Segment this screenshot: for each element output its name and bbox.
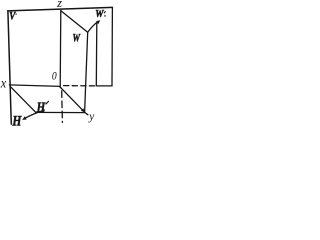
y-axis: [60, 87, 84, 112]
wire dashed unfolded y-axis toward W: [64, 85, 97, 87]
wire unfolded W left edge: [95, 23, 98, 86]
wire H rotation arrow shaft: [25, 110, 44, 118]
svg-text:x: x: [0, 75, 6, 90]
svg-text:V: V: [9, 9, 16, 23]
wire top edge (V plane top + unfolded W top): [8, 7, 113, 10]
wire W rotation arrow shaft: [88, 21, 98, 31]
H rotation arrowhead: [22, 116, 26, 120]
W rotation arrowhead: [96, 20, 100, 24]
dot after W': [104, 15, 106, 17]
svg-text:H: H: [12, 113, 23, 129]
y-axis arrowhead: [81, 108, 85, 112]
svg-text:0: 0: [52, 69, 57, 83]
svg-text:z: z: [56, 0, 62, 10]
wire y-axis overshoot tick: [85, 113, 88, 115]
prime mark of W': [104, 11, 106, 13]
wire H plane bottom edge: [36, 111, 85, 113]
wire unfolded W bottom edge: [97, 85, 113, 87]
wire left edge of V and unfolded H plane: [8, 11, 11, 124]
wire W plane right edge: [85, 32, 88, 112]
x-axis: [9, 85, 60, 87]
ink speck right of V: [15, 13, 16, 14]
svg-text:y: y: [88, 111, 95, 123]
wire H plane left oblique edge: [10, 86, 36, 112]
svg-text:H: H: [36, 100, 46, 116]
wire dashed unfolded y-axis toward H: [61, 91, 64, 123]
z-axis: [59, 10, 62, 87]
prime mark of H': [46, 101, 49, 104]
wire unfolded W right edge: [111, 7, 113, 86]
svg-text:W: W: [95, 9, 104, 20]
svg-text:W: W: [73, 31, 81, 45]
wire W plane top oblique edge: [61, 11, 88, 32]
